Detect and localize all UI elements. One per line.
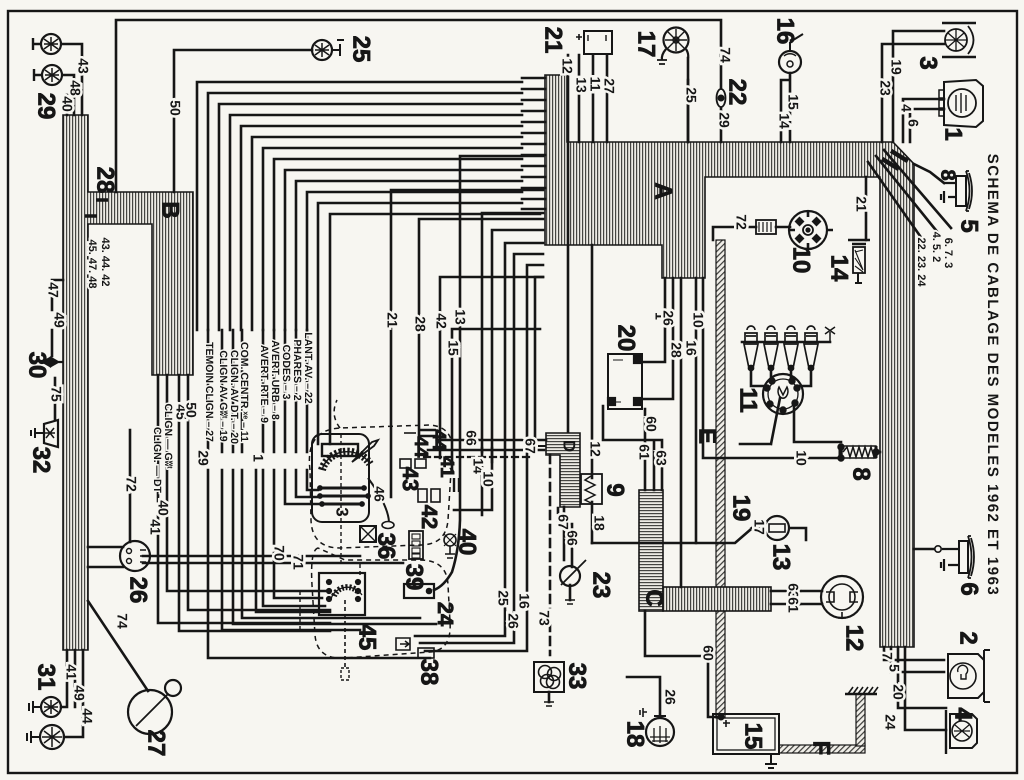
svg-text:AVERT. RTE – 9: AVERT. RTE – 9 xyxy=(258,345,270,423)
svg-text:4: 4 xyxy=(950,707,977,721)
fuse box 20 xyxy=(608,354,642,409)
switch unit solid housing xyxy=(312,434,369,522)
box 21 regulator xyxy=(576,31,612,54)
lamp 29 upper xyxy=(33,34,61,54)
wire 74 clock xyxy=(88,601,148,691)
svg-text:67: 67 xyxy=(522,438,538,454)
svg-text:32: 32 xyxy=(28,447,55,474)
label column wires upper segments xyxy=(208,330,307,452)
wire 72 connector to distributor 10 xyxy=(776,226,790,229)
wire 60 below C xyxy=(645,611,717,717)
svg-text:18: 18 xyxy=(622,721,649,748)
dashed wire 73 xyxy=(549,455,552,655)
svg-text:CLIGN AV Gʬᵗ – 19: CLIGN AV Gʬᵗ – 19 xyxy=(217,350,229,441)
svg-text:42: 42 xyxy=(417,505,442,529)
svg-text:42: 42 xyxy=(433,313,449,329)
svg-text:40: 40 xyxy=(59,96,75,112)
wire 70 xyxy=(143,555,360,558)
wire 42 inner fan xyxy=(440,277,543,458)
ignition coil 14 xyxy=(848,240,870,283)
svg-text:26: 26 xyxy=(125,577,152,604)
fuse strip 39 xyxy=(409,531,423,559)
distributor 11 xyxy=(763,374,803,414)
svg-text:B: B xyxy=(157,201,184,218)
svg-text:40: 40 xyxy=(454,529,481,556)
svg-text:50: 50 xyxy=(167,100,183,116)
upper arc switch 46 xyxy=(322,452,370,470)
svg-text:12: 12 xyxy=(841,625,868,652)
fan wire 6 xyxy=(252,137,522,330)
svg-text:45. 47. 48: 45. 47. 48 xyxy=(86,240,98,289)
svg-text:24: 24 xyxy=(433,602,458,627)
svg-text:47: 47 xyxy=(45,282,61,298)
svg-text:24: 24 xyxy=(882,714,898,730)
fan wire 2 xyxy=(208,93,522,330)
svg-text:75: 75 xyxy=(48,386,64,402)
svg-text:28: 28 xyxy=(412,316,428,332)
svg-text:41: 41 xyxy=(63,664,79,680)
diagonal bundle wires xyxy=(868,150,951,243)
fan wire 12 inner short xyxy=(318,203,522,444)
svg-text:21: 21 xyxy=(853,196,869,212)
chassis ground pad xyxy=(845,687,878,694)
harness band E xyxy=(716,240,725,718)
ignition switch 26 xyxy=(120,541,150,571)
wire 67 below D xyxy=(563,507,566,560)
fan wire 8 xyxy=(274,159,522,330)
svg-text:PHARES – 2: PHARES – 2 xyxy=(291,339,303,400)
svg-text:4: 4 xyxy=(898,104,914,112)
upper switch terminal bars xyxy=(322,488,366,504)
svg-text:CLIGN. ― DT: CLIGN. ― DT xyxy=(151,427,163,493)
svg-text:16: 16 xyxy=(683,340,699,356)
distributor 10 xyxy=(789,211,833,249)
lower arc switch 45 xyxy=(334,587,359,596)
wire 72 connector to E band xyxy=(713,227,756,240)
svg-text:3: 3 xyxy=(333,507,352,516)
connector 38 plug xyxy=(396,638,434,658)
svg-text:41: 41 xyxy=(147,519,163,535)
wire 13 inner fan xyxy=(434,156,543,590)
wire 50 from lamp 25 xyxy=(174,50,312,192)
harness band C horizontal arm xyxy=(663,587,771,611)
svg-text:25: 25 xyxy=(683,87,699,103)
svg-text:61: 61 xyxy=(636,444,652,460)
ignition coils of 11 xyxy=(743,326,835,371)
svg-text:38: 38 xyxy=(416,659,443,686)
svg-text:22: 22 xyxy=(724,79,751,106)
svg-text:C: C xyxy=(641,589,668,606)
svg-text:5: 5 xyxy=(886,664,902,672)
wires 7 5 to headlamp 2 xyxy=(884,647,944,672)
fan wire 7 xyxy=(263,148,522,330)
link to connector 36 xyxy=(368,478,389,522)
harness band D xyxy=(546,433,580,507)
wire 13 xyxy=(578,55,581,142)
svg-text:74: 74 xyxy=(717,47,733,63)
flasher 13 wire xyxy=(592,530,750,543)
wire 48 lamp29b xyxy=(63,75,74,115)
headlamp 3 xyxy=(942,23,976,57)
svg-text:F: F xyxy=(808,741,835,756)
svg-text:60: 60 xyxy=(700,645,716,661)
fuse box leads down 60 61 63 xyxy=(603,406,662,490)
wires from A foot: 1 26 10 28 16 xyxy=(641,278,696,587)
svg-text:41: 41 xyxy=(436,456,457,478)
fan wire 4 xyxy=(230,115,522,330)
svg-text:60: 60 xyxy=(643,416,659,432)
wire 21 to coil 14 xyxy=(865,177,868,240)
svg-text:5: 5 xyxy=(956,219,983,232)
resistor 9 xyxy=(581,474,602,504)
resistor 8 to band arm xyxy=(876,451,880,454)
svg-text:29: 29 xyxy=(33,93,60,120)
svg-text:63: 63 xyxy=(653,450,669,466)
wire to speaker 5 xyxy=(914,164,944,183)
connector 43 xyxy=(400,459,426,468)
svg-text:12: 12 xyxy=(559,58,575,74)
wires 63 61 from C xyxy=(771,591,800,604)
wires 20 24 to headlamp 4 xyxy=(898,647,946,730)
svg-text:SCHEMA DE CABLAGE DES MODELES: SCHEMA DE CABLAGE DES MODELES 1962 ET 19… xyxy=(984,154,1001,597)
dashed lever of 45 xyxy=(344,600,346,668)
svg-text:22. 23. 24: 22. 23. 24 xyxy=(915,238,927,288)
svg-text:39: 39 xyxy=(401,564,428,591)
headlamp 2 xyxy=(948,650,990,702)
blower 33 xyxy=(534,662,564,706)
wires 4 6 to lamp 1 xyxy=(903,99,944,142)
svg-text:66: 66 xyxy=(463,430,479,446)
dynamo leads xyxy=(800,591,822,604)
svg-text:6. 7. 3: 6. 7. 3 xyxy=(942,238,954,269)
flasher 13 xyxy=(751,516,797,540)
harness band C vertical arm xyxy=(639,490,663,611)
svg-text:19: 19 xyxy=(728,495,755,522)
svg-text:8: 8 xyxy=(848,467,875,480)
speaker 6 xyxy=(935,536,974,578)
wire 18 below resistor 9 xyxy=(591,502,594,543)
label column wires lower segments xyxy=(208,470,436,658)
harness band A xyxy=(545,75,914,647)
wires band B to switch 26 xyxy=(88,547,123,567)
steering cluster housing lower dashed xyxy=(312,548,451,658)
svg-text:10: 10 xyxy=(480,471,496,487)
svg-text:TEMOIN CLIGN – 27: TEMOIN CLIGN – 27 xyxy=(203,342,215,442)
wire 28 inner fan xyxy=(419,219,543,437)
distributor 11 lead to resistor 8 xyxy=(794,404,841,442)
svg-text:44: 44 xyxy=(410,436,431,458)
svg-text:49: 49 xyxy=(71,685,87,701)
fan wire 5 xyxy=(241,126,522,330)
wire to speaker 6 xyxy=(914,548,934,551)
svg-text:15: 15 xyxy=(785,94,801,110)
svg-text:15: 15 xyxy=(740,723,767,750)
connectors 44 xyxy=(404,430,436,436)
svg-text:43: 43 xyxy=(75,58,91,74)
horn 17 wire 25 xyxy=(687,58,690,142)
svg-text:44: 44 xyxy=(428,429,449,451)
wire 12 resistor 9 xyxy=(591,245,594,478)
svg-text:29: 29 xyxy=(195,450,211,466)
harness band F horizontal xyxy=(779,745,865,753)
item 41 xyxy=(454,478,459,492)
connector 72 xyxy=(756,220,776,234)
wire 12 top xyxy=(567,55,570,432)
inner fan wire f xyxy=(535,277,543,448)
svg-text:D: D xyxy=(560,440,579,452)
wire 72 ignition xyxy=(129,430,132,542)
connector 42 xyxy=(418,489,440,502)
resistor 8 spring xyxy=(838,444,878,460)
svg-text:E: E xyxy=(694,428,721,444)
fan wire 1 xyxy=(197,82,522,330)
svg-text:8: 8 xyxy=(937,169,959,180)
svg-text:70: 70 xyxy=(271,545,287,561)
svg-text:73: 73 xyxy=(536,610,552,626)
wire 10 long to resistor 8 xyxy=(703,278,842,458)
wires 41 49 44 to lamps 31 xyxy=(61,650,83,737)
svg-text:31: 31 xyxy=(33,664,60,691)
fan wire 11 xyxy=(307,192,522,330)
67 tick at D xyxy=(538,445,546,447)
svg-text:COM. CENTR.ˣᵉ – 11: COM. CENTR.ˣᵉ – 11 xyxy=(238,342,250,442)
harness band B xyxy=(63,115,193,650)
wire 43 lamp29a xyxy=(62,44,82,115)
wire 27 xyxy=(606,55,609,142)
horn 17 xyxy=(657,28,689,65)
svg-text:15: 15 xyxy=(445,340,461,356)
horn 18 xyxy=(640,708,674,746)
svg-text:44: 44 xyxy=(79,708,95,724)
lower switch 45 housing xyxy=(319,573,365,615)
svg-text:6: 6 xyxy=(905,119,921,127)
wires 23 19 to lamp 3 xyxy=(882,31,944,142)
lamp 32 xyxy=(31,420,58,447)
clock 27 xyxy=(128,680,181,734)
svg-text:72: 72 xyxy=(123,476,139,492)
fan wire 13 inner short xyxy=(330,214,540,444)
switch unit top bar xyxy=(322,444,358,456)
dashed stalk top xyxy=(334,400,340,428)
svg-text:20: 20 xyxy=(890,684,906,700)
lever 46 xyxy=(352,440,378,462)
dynamo 12 xyxy=(821,576,863,618)
wire 66 to switch 23 xyxy=(558,508,572,567)
svg-text:17: 17 xyxy=(751,519,767,535)
svg-text:43: 43 xyxy=(398,467,423,491)
svg-text:23: 23 xyxy=(588,572,615,599)
svg-text:4. 5. 2: 4. 5. 2 xyxy=(930,232,942,263)
svg-text:26: 26 xyxy=(662,689,678,705)
wire 15 inner fan xyxy=(452,329,540,470)
wires from B block bottom xyxy=(158,375,330,631)
headlamp 1 xyxy=(939,80,983,127)
coil bus xyxy=(742,341,830,344)
svg-text:17: 17 xyxy=(633,31,660,58)
svg-text:43. 44. 42: 43. 44. 42 xyxy=(99,238,111,287)
inner fan wire a xyxy=(482,213,543,452)
svg-text:49: 49 xyxy=(51,312,67,328)
battery 15 xyxy=(713,714,779,769)
lamp 25 top xyxy=(312,40,344,60)
svg-text:AVERT. URB – 8: AVERT. URB – 8 xyxy=(269,340,281,420)
connector marks 28 xyxy=(85,200,108,216)
svg-text:19: 19 xyxy=(888,59,904,75)
svg-text:11: 11 xyxy=(587,77,603,92)
wire 40 lamp29b2 xyxy=(66,95,69,115)
svg-text:21: 21 xyxy=(540,27,567,54)
dashed wire y457 xyxy=(424,456,530,458)
svg-text:2: 2 xyxy=(955,631,982,644)
svg-text:29: 29 xyxy=(716,112,732,128)
svg-text:3: 3 xyxy=(915,56,942,69)
relay box under 39 xyxy=(404,584,434,598)
svg-text:16: 16 xyxy=(516,593,532,609)
flasher right ground lead xyxy=(790,528,806,540)
svg-text:12: 12 xyxy=(587,441,603,457)
svg-text:11: 11 xyxy=(735,387,762,412)
svg-text:14: 14 xyxy=(826,255,853,282)
svg-text:30: 30 xyxy=(24,352,51,379)
svg-text:27: 27 xyxy=(143,730,170,757)
wire 47/49 jog to connector 30 xyxy=(52,280,63,356)
wires 14 10 cluster verticals xyxy=(454,448,492,515)
svg-text:33: 33 xyxy=(564,663,591,690)
lamp 29 lower xyxy=(34,65,62,85)
svg-text:25: 25 xyxy=(495,590,511,606)
wire 71 xyxy=(143,562,403,565)
svg-text:36: 36 xyxy=(373,533,400,560)
switch 16 xyxy=(779,34,803,73)
wire 25 top xyxy=(687,80,690,142)
fan wire 9 xyxy=(285,170,522,330)
wire 66 67 horizontals cluster xyxy=(428,440,546,450)
svg-text:9: 9 xyxy=(602,483,629,496)
svg-text:LANT. AV. – 22: LANT. AV. – 22 xyxy=(302,332,314,404)
svg-text:14: 14 xyxy=(776,113,792,129)
svg-text:16: 16 xyxy=(772,18,799,45)
corner stubs xyxy=(884,152,906,168)
fuse 22 xyxy=(717,89,726,107)
wires 14 15 from switch 16 xyxy=(781,73,790,142)
svg-text:40: 40 xyxy=(155,500,171,516)
connector 36 xyxy=(360,526,376,542)
svg-text:46: 46 xyxy=(371,486,387,502)
svg-text:45: 45 xyxy=(354,624,381,651)
svg-text:23: 23 xyxy=(877,80,893,96)
wire 33 ground lead xyxy=(548,692,551,702)
speaker 5 xyxy=(941,171,972,211)
svg-text:25: 25 xyxy=(348,36,375,63)
inner fan wire c / wire 25 long xyxy=(415,243,543,636)
svg-text:10: 10 xyxy=(788,247,815,274)
svg-text:1: 1 xyxy=(940,127,967,140)
svg-text:18: 18 xyxy=(591,515,607,531)
wire 11 xyxy=(592,55,595,142)
svg-text:A: A xyxy=(650,182,677,199)
svg-text:26: 26 xyxy=(660,310,676,326)
headlamp 4 xyxy=(946,710,977,754)
svg-text:21: 21 xyxy=(384,312,400,328)
svg-text:10: 10 xyxy=(793,450,809,466)
svg-text:72: 72 xyxy=(733,214,749,230)
long top wire B to 74 xyxy=(116,20,721,192)
dashed drops below cluster xyxy=(300,434,360,630)
inner fan wire d / wire 16 long xyxy=(420,254,543,643)
svg-text:48: 48 xyxy=(67,80,83,96)
svg-text:7: 7 xyxy=(879,652,895,660)
lamp 40 xyxy=(444,534,456,558)
svg-text:20: 20 xyxy=(613,325,640,352)
svg-text:67: 67 xyxy=(555,514,571,530)
svg-text:13: 13 xyxy=(573,77,589,93)
wire 21 inner fan xyxy=(391,190,543,497)
wire from 23 circle down to ground xyxy=(569,585,572,600)
lamp 31 lower xyxy=(27,725,64,749)
svg-text:27: 27 xyxy=(601,78,617,94)
svg-text:66: 66 xyxy=(564,530,580,546)
wire 75 to lamp 32 xyxy=(54,378,57,420)
svg-text:74: 74 xyxy=(114,613,130,629)
fan wire 10 xyxy=(296,181,522,330)
harness band F vertical xyxy=(856,694,865,746)
svg-text:28: 28 xyxy=(668,342,684,358)
svg-text:50: 50 xyxy=(183,402,199,418)
wire 26 of horn 18 xyxy=(627,677,660,716)
fan wire 3 xyxy=(219,104,522,330)
svg-text:6: 6 xyxy=(956,582,983,595)
svg-text:13: 13 xyxy=(452,309,468,325)
svg-text:61: 61 xyxy=(785,597,801,613)
steering cluster housing upper dashed xyxy=(309,425,452,548)
circle switch 23 xyxy=(560,560,586,604)
svg-text:71: 71 xyxy=(290,554,306,570)
svg-text:10: 10 xyxy=(690,312,706,328)
connector 30 xyxy=(43,358,63,366)
lamp 31 upper xyxy=(29,697,61,717)
svg-text:28: 28 xyxy=(92,167,119,194)
HT lead xyxy=(740,398,780,444)
coil leads to distributor 11 xyxy=(751,370,811,386)
inner fan wire e / wire 26 long xyxy=(425,265,543,651)
comb teeth of band A xyxy=(522,78,545,209)
svg-text:26: 26 xyxy=(505,613,521,629)
inner fan wire b xyxy=(492,230,543,462)
svg-text:13: 13 xyxy=(768,544,795,571)
svg-text:CODES – 3: CODES – 3 xyxy=(280,345,292,400)
svg-text:1: 1 xyxy=(250,454,266,462)
